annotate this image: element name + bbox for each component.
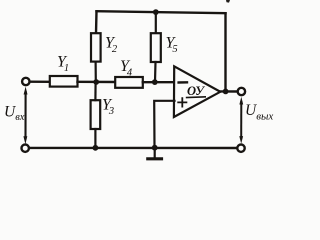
node junction ground tap [152,145,158,151]
terminal input top [22,78,29,85]
admittance Y3 [91,100,101,129]
node junction Y3-bottom [93,145,99,151]
node inverting-input junction [152,79,158,85]
wire op-amp output [220,90,238,92]
svg-text:Uвых: Uвых [245,102,273,123]
svg-text:Uвх: Uвх [4,104,25,124]
svg-text:ОУ: ОУ [187,84,205,98]
wire Y5 top lead [155,12,157,33]
admittance Y1 [50,76,78,87]
wire Y3 bottom lead [94,129,96,148]
speck (page artifact top edge) [226,0,230,3]
terminal output top [238,88,245,95]
node A junction [93,79,99,85]
wire bottom common rail [29,147,237,150]
wire input terminal to Y1 [30,80,51,83]
admittance Y5 [151,33,161,62]
ground [154,148,156,159]
wire Y1 to node A [78,81,116,84]
op-amp U1 triangle [174,66,220,117]
svg-text:Y5: Y5 [166,35,178,56]
wire right feedback vertical [224,13,226,91]
wire non-inverting input to ground rail [154,101,174,148]
svg-text:Y1: Y1 [57,54,69,75]
terminal output bottom [237,145,244,152]
admittance Y2 [91,33,101,61]
svg-text:Y4: Y4 [120,58,133,79]
wire Y5 bottom lead [154,62,157,82]
op-amp plus sign [178,98,186,106]
node junction top (Y5 tap) [153,9,159,15]
wire top feedback bus [97,11,226,13]
dimension arrow Uvyx [240,102,242,138]
wire Y4 to op-amp inverting input [143,81,175,83]
op-amp minus sign [179,81,187,84]
terminal input bottom [22,145,29,152]
admittance Y4 [115,77,143,88]
svg-text:Y3: Y3 [102,97,114,118]
svg-text:Y2: Y2 [105,35,118,56]
wire Y3 top lead [94,82,96,100]
node output junction [223,89,229,95]
wire Y2 bottom lead [94,62,96,82]
wire Y2 top lead [95,11,98,33]
dimension arrow Uvx [24,92,26,138]
